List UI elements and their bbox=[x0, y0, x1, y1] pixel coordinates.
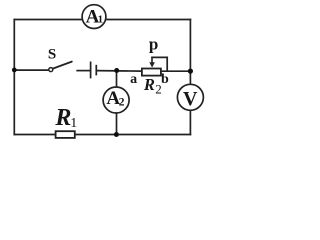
wire right vertical bbox=[189, 20, 191, 72]
svg-text:V: V bbox=[183, 88, 198, 110]
svg-text:S: S bbox=[48, 47, 56, 63]
svg-text:2: 2 bbox=[119, 97, 125, 109]
wire slider p to node b bbox=[152, 57, 167, 71]
wire battery to rheostat bbox=[97, 70, 141, 73]
rheostat slider arrow bbox=[149, 57, 155, 67]
svg-text:a: a bbox=[130, 72, 137, 87]
wire A2 branch upper bbox=[116, 71, 118, 88]
svg-text:1: 1 bbox=[70, 116, 77, 131]
junction node A2 top bbox=[114, 68, 119, 73]
wire V branch lower bbox=[189, 110, 191, 134]
svg-text:b: b bbox=[161, 72, 169, 87]
ammeter A1 bbox=[82, 5, 106, 29]
junction node A2 bottom bbox=[114, 132, 119, 137]
svg-text:R: R bbox=[54, 105, 71, 131]
junction node right bbox=[188, 69, 193, 74]
wire bottom left segment bbox=[14, 134, 55, 136]
svg-text:p: p bbox=[149, 34, 158, 53]
svg-text:R: R bbox=[143, 75, 155, 94]
svg-text:2: 2 bbox=[155, 81, 162, 96]
junction node left bbox=[12, 68, 17, 73]
wire middle left to switch bbox=[14, 69, 49, 71]
wire switch to battery bbox=[77, 70, 90, 72]
wire top left segment bbox=[14, 19, 82, 21]
wire left vertical bbox=[13, 20, 15, 135]
svg-text:1: 1 bbox=[98, 13, 104, 25]
voltmeter V bbox=[177, 84, 203, 110]
wire bottom right segment bbox=[76, 134, 191, 136]
wire A2 branch lower bbox=[116, 113, 118, 134]
ammeter A2 bbox=[103, 87, 129, 113]
battery cell bbox=[91, 62, 97, 79]
wire top right segment bbox=[106, 19, 191, 21]
resistor R1 body bbox=[56, 131, 75, 138]
rheostat R2 body bbox=[142, 69, 161, 76]
wire V branch upper bbox=[189, 71, 191, 84]
switch S bbox=[49, 62, 72, 72]
wire rheostat b lead to right bbox=[162, 70, 191, 72]
